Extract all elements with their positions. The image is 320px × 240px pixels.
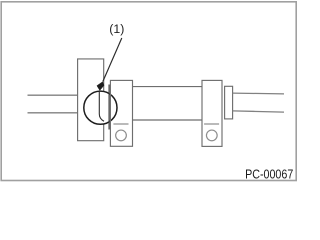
wire right propeller shaft top line (233, 92, 284, 95)
leader arrowhead (97, 82, 104, 91)
shaft tube bottom line (133, 119, 203, 121)
svg-text:PC-00067: PC-00067 (245, 166, 293, 181)
left bracket (110, 80, 132, 146)
flange yoke block (78, 59, 104, 141)
leader arrow line (103, 38, 122, 81)
wire left propeller shaft bottom line (28, 112, 78, 114)
center bearing circle (84, 91, 117, 124)
right bracket (202, 80, 222, 146)
left bracket cushion line (113, 123, 128, 125)
right bracket bolt hole (206, 130, 217, 141)
bearing inner slot curve (99, 91, 104, 121)
wire right propeller shaft bottom line (233, 111, 284, 112)
svg-text:(1): (1) (109, 22, 124, 36)
shaft end line through bearing (108, 85, 110, 130)
shaft tube top line (133, 86, 203, 88)
left bracket bolt hole (116, 130, 127, 141)
right bracket cushion line (204, 123, 219, 125)
wire left propeller shaft top line (28, 94, 78, 96)
stub shaft block (225, 86, 233, 119)
